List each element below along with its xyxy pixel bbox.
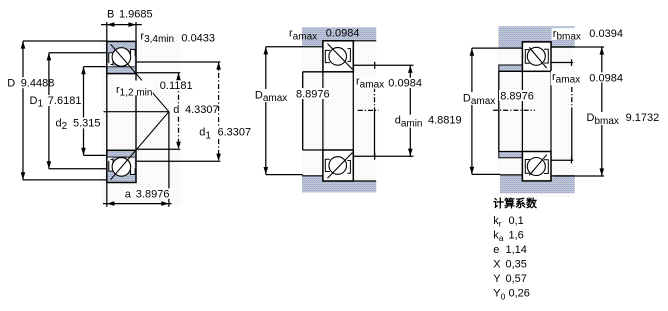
ball (bottom, fig1) xyxy=(112,158,131,177)
extension line d top (fig1) xyxy=(136,72,180,74)
cage right (fig3 top) xyxy=(544,49,548,63)
inner ring shoulder recess (top, fig1) xyxy=(126,51,135,67)
figure 2 hatched background plate xyxy=(302,27,376,192)
cage left (fig2 top) xyxy=(325,50,330,62)
extension line Damax bottom (fig3) xyxy=(472,173,500,175)
svg-text:0.0984: 0.0984 xyxy=(388,78,422,90)
svg-text:8.8976: 8.8976 xyxy=(500,90,534,102)
svg-text:d: d xyxy=(173,104,179,116)
shaft seat line top (fig3) xyxy=(499,70,523,72)
housing block bottom (fig3) xyxy=(500,175,575,193)
housing block top (fig2) xyxy=(302,27,376,47)
shaft shoulder line bottom (fig3) xyxy=(551,159,573,161)
extension line d2 top (fig1) xyxy=(84,66,107,68)
bearing face extension left (fig3) xyxy=(521,71,523,151)
dimension D line (fig1) xyxy=(22,41,24,180)
ball (fig2 bottom) xyxy=(329,157,347,175)
face extension line for a (fig1) xyxy=(106,183,108,207)
extension line Damax top (fig2) xyxy=(266,46,302,48)
svg-text:0,35: 0,35 xyxy=(506,259,527,271)
shaft seat line bottom (fig3) xyxy=(499,151,523,153)
shaft cut edge left (fig3) xyxy=(498,71,500,151)
extension line D1 bottom (fig1) xyxy=(49,168,107,170)
label damin 4.8819 (fig2) xyxy=(394,115,423,128)
shaft end dash-dot leader (fig3) xyxy=(571,87,573,110)
cage pocket right (bottom, fig1) xyxy=(131,169,135,175)
centre line to apex (fig1) xyxy=(104,111,169,113)
svg-text:9.1732: 9.1732 xyxy=(626,112,660,124)
shaft shoulder line top (fig3) xyxy=(551,62,573,64)
cage pocket left (bottom, fig1) xyxy=(109,159,113,171)
contact angle line (fig2 top) xyxy=(328,44,353,70)
svg-text:4.8819: 4.8819 xyxy=(428,114,462,126)
dimension damin line (fig2) xyxy=(409,65,411,156)
bearing outline box (fig2 bottom) xyxy=(323,150,353,181)
shaft shoulder face top (fig2) xyxy=(352,65,354,72)
apex extension line for a (fig1) xyxy=(168,112,170,207)
ball (fig2 top) xyxy=(329,48,347,66)
label d 4.3307 xyxy=(172,104,181,115)
contact angle line (fig3 top) xyxy=(529,47,546,68)
svg-text:1,14: 1,14 xyxy=(506,244,527,256)
shaft end break tick bottom (fig3) xyxy=(571,157,573,164)
contact angle line through top ball (fig1) xyxy=(111,44,169,112)
label Damax 8.8976 (fig3) xyxy=(462,92,493,105)
inner ring boundary line (top, fig1) xyxy=(108,66,135,68)
inner ring chamfer notch (top, fig1) xyxy=(108,62,114,66)
housing bore profile line bottom (fig2) xyxy=(302,176,376,181)
shaft seat line bottom (fig2) xyxy=(303,149,323,151)
svg-text:1.9685: 1.9685 xyxy=(119,8,153,20)
housing block bottom (fig2) xyxy=(302,176,376,193)
cage left (fig3 bottom) xyxy=(525,160,529,174)
dimension Damax line (fig3) xyxy=(471,48,473,174)
extension line Damax bottom (fig2) xyxy=(266,174,303,176)
svg-text:0.0984: 0.0984 xyxy=(589,72,623,84)
svg-text:7.6181: 7.6181 xyxy=(48,95,82,107)
label 0.0984 shaft (fig2) xyxy=(387,78,423,88)
shaft spacer block bottom (fig3) xyxy=(499,152,523,158)
bearing outline box (fig3 bottom) xyxy=(522,152,551,181)
svg-text:0,1: 0,1 xyxy=(509,215,524,227)
svg-text:计算系数: 计算系数 xyxy=(493,196,538,210)
label Damax 8.8976 (fig2) xyxy=(254,89,290,102)
label ramax shaft (fig2) xyxy=(355,76,384,89)
svg-text:0.0984: 0.0984 xyxy=(326,28,360,40)
extension line Damax top (fig3) xyxy=(472,47,499,49)
svg-text:1,6: 1,6 xyxy=(509,229,524,241)
axis centre line stub (fig2) xyxy=(358,109,379,111)
bearing face extension right (fig3) xyxy=(550,71,552,151)
ball (fig3 bottom) xyxy=(527,158,545,176)
figure 3 hatched background plate xyxy=(497,26,575,197)
dimension d2 line (fig1) xyxy=(83,67,85,156)
label Dbmax 9.1732 (fig3) xyxy=(585,112,620,125)
contact angle line (fig2 bottom) xyxy=(328,153,353,179)
cage pocket left (top, fig1) xyxy=(109,53,113,65)
dimension d line (fig1) xyxy=(178,73,180,150)
contact angle line (fig3 bottom) xyxy=(529,155,546,176)
dimension Dbmax line (fig3) xyxy=(601,47,603,176)
bearing face line left (fig1) xyxy=(106,74,108,151)
bearing outline box (fig3 top) xyxy=(522,42,551,71)
housing block top (fig3) xyxy=(499,26,575,48)
label rbmax 0.0394 (fig3) xyxy=(552,28,580,40)
inner ring chamfer notch (bottom, fig1) xyxy=(108,157,114,161)
housing bore profile line bottom (fig3) xyxy=(500,175,575,181)
label a 3.8976 xyxy=(124,188,132,198)
svg-text:a: a xyxy=(125,189,132,201)
shaft end dash-dot leader (fig2) xyxy=(374,87,376,110)
figure 1 hatched plate upper right patch xyxy=(138,33,182,41)
cage right (fig3 bottom) xyxy=(544,160,548,174)
extension line d1 bottom (fig1) xyxy=(136,160,220,162)
dimension D1 line (fig1) xyxy=(48,53,50,169)
inner ring shoulder recess (bottom, fig1) xyxy=(126,157,135,173)
extension lines for B (fig1) xyxy=(106,22,108,41)
svg-text:6.3307: 6.3307 xyxy=(218,127,252,139)
shaft spacer block top (fig3) xyxy=(499,65,523,71)
shaft seat line top (fig2) xyxy=(303,71,323,73)
cage pocket right (top, fig1) xyxy=(131,49,135,55)
dimension Damax line (fig2) xyxy=(265,47,267,175)
svg-text:D: D xyxy=(7,77,15,89)
ball (fig3 top) xyxy=(527,47,545,65)
axis centre line stub (fig3) xyxy=(493,109,535,111)
bearing face line right (fig1) xyxy=(135,74,137,151)
shaft end break tick top (fig2) xyxy=(374,62,376,69)
svg-text:X: X xyxy=(493,259,501,271)
extension line Dbmax bottom (fig3) xyxy=(553,175,604,177)
svg-text:0,26: 0,26 xyxy=(509,288,530,300)
inner ring boundary line (bottom, fig1) xyxy=(108,156,135,158)
shaft end break tick top (fig3) xyxy=(571,59,573,66)
dimension d1 line (fig1) xyxy=(218,62,220,161)
cage left (fig3 top) xyxy=(525,50,529,64)
cage right (fig2 bottom) xyxy=(347,161,350,174)
shaft end break tick bottom (fig2) xyxy=(374,153,376,160)
label D1 7.6181 xyxy=(29,95,45,106)
label r1,2 min 0.1181 xyxy=(115,81,153,96)
ball (top, fig1) xyxy=(112,48,131,67)
svg-text:4.3307: 4.3307 xyxy=(185,104,219,116)
svg-text:8.8976: 8.8976 xyxy=(296,88,330,100)
shaft shoulder line top (fig2) xyxy=(353,64,413,66)
svg-text:e: e xyxy=(493,244,499,256)
figure 1 hatched background plate xyxy=(102,41,182,206)
shaft cut edge left (fig2) xyxy=(302,72,304,150)
svg-text:0,57: 0,57 xyxy=(506,273,527,285)
label d2 5.315 xyxy=(55,117,69,128)
cage right (fig2 top) xyxy=(347,49,350,62)
svg-text:3.8976: 3.8976 xyxy=(136,189,170,201)
extension line d2 bottom (fig1) xyxy=(84,154,107,156)
extension line Dbmax top (fig3) xyxy=(551,46,604,48)
bearing face extension right (fig2) xyxy=(352,72,354,156)
svg-text:Y: Y xyxy=(493,273,501,285)
extension line D bottom (fig1) xyxy=(23,179,107,181)
svg-text:5.315: 5.315 xyxy=(73,117,101,129)
shaft end edge lower (fig3) xyxy=(571,110,573,160)
dimension a line (fig1) xyxy=(103,203,172,205)
svg-text:0.0433: 0.0433 xyxy=(181,32,215,44)
extension line D1 top (fig1) xyxy=(49,52,107,54)
svg-text:B: B xyxy=(107,8,114,20)
extension line d bottom (fig1) xyxy=(136,148,180,150)
shaft shoulder line bottom (fig2) xyxy=(353,155,413,157)
svg-text:0.0394: 0.0394 xyxy=(589,28,623,40)
dimension B line (fig1) xyxy=(101,24,142,26)
housing bore profile line top (fig2) xyxy=(302,41,376,47)
bearing section rings (top, fig1) xyxy=(107,41,136,73)
svg-text:0.1181: 0.1181 xyxy=(160,80,193,92)
contact angle line through bottom ball (fig1) xyxy=(111,112,169,180)
label d1 6.3307 xyxy=(198,127,212,138)
extension line D top (fig1) xyxy=(23,40,107,42)
housing bore profile line top (fig3) xyxy=(499,42,575,48)
extension line d1 top (fig1) xyxy=(136,61,220,63)
cage left (fig2 bottom) xyxy=(325,159,330,171)
shaft end edge lower (fig2) xyxy=(374,110,376,156)
bearing face extension left (fig2) xyxy=(322,72,324,150)
bearing outline box (fig2 top) xyxy=(323,41,353,72)
label ramax 0.0984 (fig3) xyxy=(551,71,582,86)
bearing section rings (bottom, fig1) xyxy=(107,150,136,182)
